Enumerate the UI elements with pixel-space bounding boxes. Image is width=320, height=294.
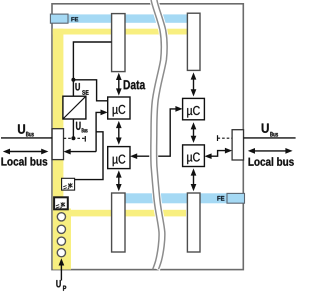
- wire S1 to rail jog: [75, 132, 103, 180]
- wire converter bottom to UBus node: [72, 119, 74, 138]
- wire local-bus µC2 to µC3 across break: [136, 109, 177, 156]
- FE terminal block bottom right: [227, 193, 245, 203]
- power feed terminal point 4: [57, 249, 65, 257]
- microcontroller µC1: [108, 97, 130, 119]
- node UBus junction dot: [71, 136, 75, 140]
- label UBus right outside: [262, 124, 269, 133]
- bus coupler contact R4 (bottom right): [187, 193, 200, 252]
- double arrow R2 to µC3: [191, 72, 197, 96]
- bus coupler contact R2 (top right): [187, 13, 200, 70]
- switch box S2 (highlighted): [54, 197, 68, 209]
- UBus stub termination tick right: [217, 135, 219, 141]
- UP supply arrow into bottom terminal: [59, 258, 65, 280]
- arrowhead into µC2 right edge (points left): [130, 153, 137, 159]
- double arrow µC2 to R3: [116, 170, 122, 191]
- power feed terminal point 1: [57, 213, 65, 221]
- break wave mask: [154, 0, 165, 269]
- FE label top: [71, 17, 78, 21]
- break wave left line: [151, 0, 162, 269]
- double arrow µC4 to R4: [191, 168, 197, 191]
- UP power bus left vertical band lower wide (yellow): [53, 209, 71, 270]
- label USE: [75, 83, 79, 90]
- node junction on USE rail: [71, 78, 75, 82]
- UBus feed line left outside: [1, 137, 52, 139]
- FE bus bar bottom (blue): [125, 193, 244, 203]
- wire rail to local bus connector left (arrow): [64, 149, 97, 155]
- label Local bus left: [1, 157, 47, 166]
- label Local bus right: [249, 157, 294, 166]
- microcontroller µC4: [183, 145, 205, 167]
- switch box S1: [62, 178, 75, 190]
- microcontroller µC2: [108, 147, 130, 169]
- break wave right line: [157, 0, 168, 269]
- local bus connector block left border: [52, 129, 63, 160]
- UP power bus bottom bar (yellow): [63, 210, 186, 217]
- double arrow µC3 to µC4: [191, 122, 197, 143]
- local bus double arrow left outside: [3, 149, 49, 155]
- bus coupler contact R3 (bottom left): [112, 193, 125, 252]
- FE terminal block top left: [50, 14, 68, 23]
- FE bus bar top (blue): [53, 14, 188, 22]
- UBus feed line right outside: [244, 137, 296, 139]
- power feed terminal point 3: [57, 237, 65, 245]
- local bus double arrow right outside: [248, 148, 293, 154]
- label UBus below converter: [76, 122, 80, 130]
- double arrow µC1 to µC2: [116, 121, 122, 145]
- wire internal rail to µC1 (arrow): [96, 110, 108, 152]
- wire converter top to coupler R1: [73, 42, 111, 96]
- supply converter USE (box with diagonal): [63, 96, 86, 119]
- power feed terminal point 2: [57, 225, 65, 233]
- dashed UBus stub right: [218, 137, 233, 139]
- dashed UBus stub left: [64, 137, 86, 139]
- arrowhead into µC3 left edge (points right): [175, 106, 182, 112]
- label UP: [56, 280, 60, 287]
- bus coupler contact R1 (top left): [112, 14, 125, 72]
- label Data: [124, 80, 146, 89]
- data double arrow R1 to µC1: [116, 73, 122, 96]
- wire USE junction to µC1 upper pin: [73, 80, 107, 101]
- UBus stub termination tick left: [84, 136, 86, 142]
- FE label bottom: [217, 196, 224, 201]
- microcontroller µC3: [183, 98, 205, 119]
- label UBus left outside: [18, 124, 25, 133]
- UP power bus top bar (yellow): [53, 29, 188, 35]
- wire µC4 to right connector (double arrow with jog): [204, 148, 232, 159]
- local bus connector block right border: [232, 130, 243, 160]
- UP power bus left vertical band upper (yellow): [53, 29, 64, 210]
- module enclosure outline: [52, 4, 243, 270]
